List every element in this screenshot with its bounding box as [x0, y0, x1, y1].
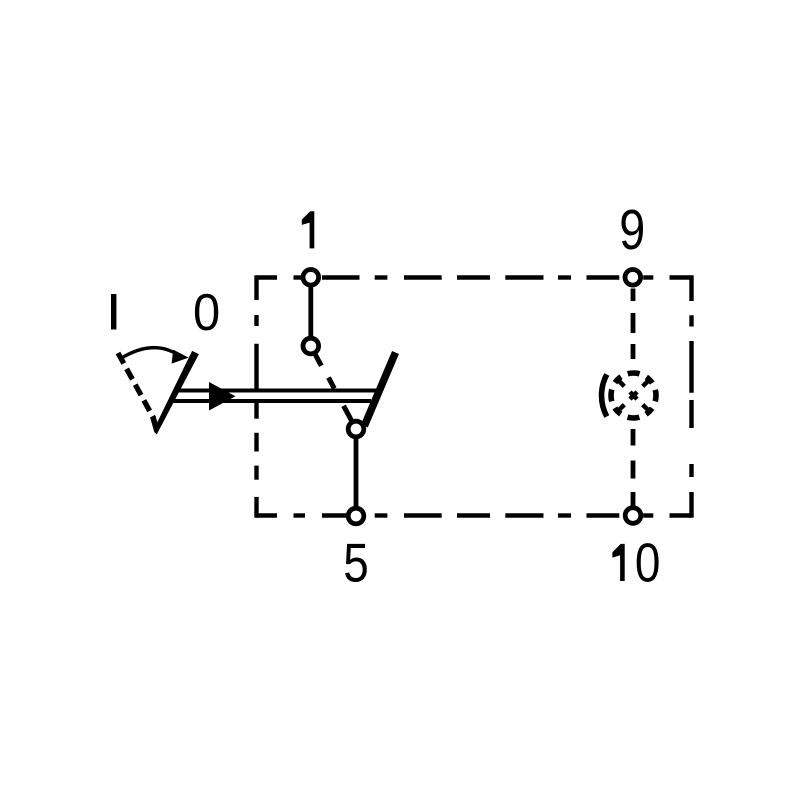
svg-text:0: 0	[635, 532, 661, 594]
lamp glow arc	[602, 374, 607, 416]
terminal 10 circle	[625, 508, 641, 524]
switch housing top edge (chain line)	[257, 275, 692, 279]
switch housing right edge (chain line)	[689, 275, 693, 517]
svg-text:9: 9	[619, 198, 645, 261]
movement arc arrow	[119, 348, 174, 360]
terminal 1 circle	[303, 270, 319, 286]
svg-text:0: 0	[193, 284, 220, 341]
terminal label 1	[302, 211, 315, 248]
movable contact pivot circle	[348, 421, 364, 437]
linkage lower line	[172, 399, 371, 403]
terminal 5 circle	[348, 508, 364, 524]
lamp L (illumination, dashed circle)	[611, 373, 656, 418]
actuator lever alternate position I (dashed)	[118, 353, 154, 418]
movable contact arm (solid, open)	[364, 353, 395, 427]
fixed contact circle	[303, 338, 319, 354]
switch housing bottom edge (chain line)	[257, 513, 692, 517]
switch housing left edge (chain line)	[254, 275, 258, 517]
wire movable contact pivot to terminal 5	[354, 429, 359, 516]
position label I	[111, 294, 116, 330]
linkage double line (white gap band)	[174, 393, 372, 400]
wire lamp to terminal 10 (dashed)	[631, 429, 636, 506]
linkage upper line	[177, 389, 376, 393]
wire terminal 9 to lamp (dashed)	[631, 289, 636, 360]
svg-text:5: 5	[343, 532, 369, 594]
linkage arrowhead	[209, 382, 236, 411]
terminal 9 circle	[625, 270, 641, 286]
contact arm alternate position (dashed, closed to contact)	[315, 353, 352, 420]
terminal label 10 (digit 1)	[612, 544, 624, 581]
wire terminal 1 to fixed contact	[308, 277, 313, 346]
actuator lever (solid, position 0, checkmark shape)	[150, 351, 199, 435]
movement arc arrowhead	[172, 350, 189, 364]
